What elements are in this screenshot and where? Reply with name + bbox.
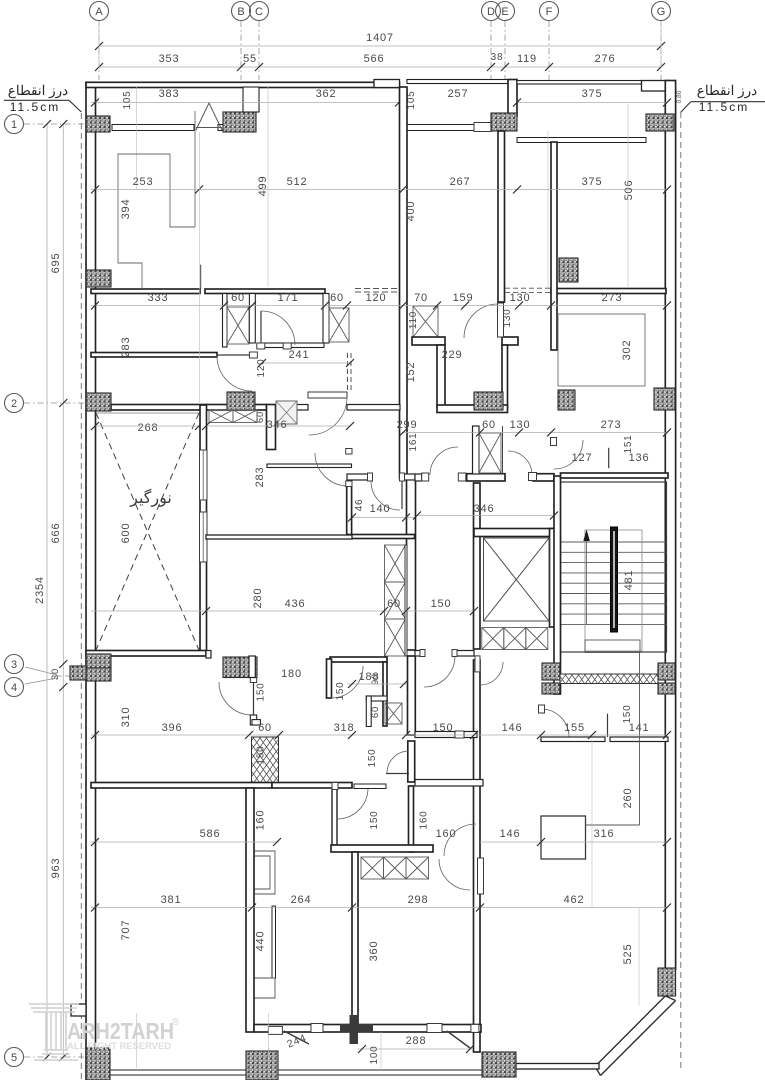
lightwell window b	[200, 512, 208, 562]
grid bubble D	[482, 2, 501, 21]
cabinet dashed b	[355, 291, 398, 293]
ext bottom c	[380, 1032, 382, 1071]
svg-text:362: 362	[316, 88, 337, 100]
door jamb	[268, 1026, 282, 1034]
closet hall 3	[385, 619, 406, 656]
door jamb	[551, 438, 557, 446]
ext 525	[638, 908, 640, 1005]
bath right wall	[383, 662, 387, 726]
closet row2 b	[233, 410, 257, 423]
svg-text:100: 100	[369, 1045, 380, 1064]
svg-text:481: 481	[623, 570, 635, 591]
stairs left wall	[554, 476, 561, 694]
counter low	[247, 978, 275, 998]
shaft wall right line	[502, 426, 504, 474]
wall 171-shaft	[323, 294, 329, 344]
svg-text:241: 241	[289, 349, 310, 361]
svg-text:566: 566	[364, 53, 385, 65]
grid bubble 5	[5, 1048, 24, 1067]
bottom window sill right	[278, 1070, 482, 1075]
svg-text:150: 150	[256, 682, 267, 701]
ext 506	[627, 104, 629, 288]
kitchen door arc	[371, 481, 400, 510]
door 360 arc	[439, 859, 470, 890]
svg-text:60: 60	[387, 598, 401, 610]
window sill 188	[354, 784, 386, 789]
dim line 1407	[99, 45, 661, 47]
wall 141	[610, 737, 668, 742]
grid line	[24, 123, 86, 125]
chamfer wall	[595, 996, 676, 1076]
door 155 arc	[541, 709, 569, 737]
svg-text:273: 273	[602, 292, 623, 304]
stair tread 5	[561, 582, 667, 584]
kitchen top wall a	[347, 474, 369, 480]
shaft 70	[413, 306, 438, 337]
room160 top wall b	[464, 732, 477, 738]
svg-text:D: D	[487, 6, 495, 18]
svg-text:346: 346	[267, 419, 288, 431]
column B/3 b	[240, 657, 257, 678]
kitchen bottom wall	[347, 535, 415, 539]
dashed wall	[347, 353, 349, 392]
dim col left	[62, 124, 64, 1057]
lightwell window a	[200, 450, 208, 500]
svg-text:130: 130	[510, 292, 531, 304]
column B/5	[246, 1051, 278, 1080]
counter 440	[247, 851, 275, 894]
leader bubble 3	[25, 667, 57, 675]
wall row2 c	[347, 405, 400, 411]
column G/4	[658, 683, 675, 694]
column A/4 out	[70, 666, 86, 680]
svg-text:159: 159	[453, 292, 474, 304]
pier G	[642, 81, 669, 92]
svg-text:436: 436	[285, 598, 306, 610]
dashed opening room130 b	[505, 291, 551, 293]
column A/5	[86, 1048, 110, 1080]
svg-text:60: 60	[231, 292, 245, 304]
counter 260	[585, 640, 640, 653]
svg-text:396: 396	[162, 722, 183, 734]
door leaf 310	[253, 682, 255, 715]
stub wall	[200, 265, 202, 289]
window band F-G	[517, 138, 646, 143]
door 130 arc	[261, 311, 295, 345]
wall 229 right	[502, 345, 508, 407]
wall 333 right	[205, 289, 325, 294]
wall 333 left	[91, 289, 200, 294]
grid line G	[660, 21, 662, 80]
svg-text:1: 1	[11, 119, 17, 131]
svg-text:333: 333	[148, 292, 169, 304]
stair tread 4	[561, 572, 667, 574]
svg-text:298: 298	[408, 894, 429, 906]
closet low 1	[361, 857, 384, 879]
stair tread 9	[561, 623, 667, 625]
closet hall 1	[385, 545, 406, 582]
svg-text:150: 150	[367, 748, 378, 767]
wall under 171	[257, 343, 324, 348]
column B/3 a	[223, 657, 240, 678]
svg-text:375: 375	[582, 88, 603, 100]
window 288	[427, 1024, 442, 1033]
door 150 leaf	[386, 773, 409, 775]
door leaf 130	[260, 311, 262, 345]
svg-text:60: 60	[255, 411, 266, 423]
grid bubble 3	[5, 655, 24, 674]
exterior wall right	[665, 81, 675, 970]
column A/1	[86, 116, 110, 132]
svg-text:267: 267	[450, 176, 471, 188]
dim row top	[99, 66, 661, 68]
svg-text:381: 381	[161, 894, 182, 906]
lightwell top line	[96, 412, 199, 414]
grid bubble A	[90, 2, 109, 21]
closet hall 2	[385, 582, 406, 619]
svg-text:146: 146	[502, 722, 523, 734]
column F/mid	[559, 258, 578, 282]
wall E down	[498, 131, 505, 302]
door jamb	[332, 783, 338, 790]
wall row2	[111, 405, 267, 411]
svg-text:273: 273	[601, 419, 622, 431]
bath left wall	[327, 659, 332, 698]
grid line	[24, 402, 86, 404]
wall vert 410 low	[408, 741, 415, 782]
dashed wall b	[350, 353, 352, 392]
door 159 leaf	[498, 303, 504, 337]
shaft wall left	[473, 426, 480, 474]
ext G	[660, 21, 662, 67]
svg-text:119: 119	[517, 53, 537, 65]
stair tread 7	[561, 603, 667, 605]
watermark logo column	[29, 1004, 79, 1060]
balcony door triangle	[196, 103, 222, 130]
dim line 383-362	[91, 102, 407, 104]
column F/4	[542, 683, 560, 694]
svg-text:150: 150	[369, 810, 380, 829]
svg-text:283: 283	[254, 467, 266, 488]
grid line E	[504, 21, 506, 80]
svg-text:360: 360	[368, 941, 380, 962]
svg-text:155: 155	[564, 722, 585, 734]
grid bubble 4	[5, 678, 24, 697]
column B/1	[223, 112, 256, 132]
svg-text:288: 288	[406, 1035, 427, 1047]
shower wall h	[366, 696, 387, 701]
svg-text:264: 264	[291, 894, 312, 906]
expansion joint right	[680, 112, 682, 1068]
shower wall v	[366, 696, 371, 727]
svg-text:152: 152	[405, 362, 417, 383]
door 180 arc	[331, 666, 363, 698]
svg-text:105: 105	[122, 90, 133, 109]
svg-text:666: 666	[50, 523, 62, 544]
wall L row2	[267, 405, 276, 450]
column A/3	[86, 654, 111, 668]
svg-text:440: 440	[255, 931, 267, 952]
elevator sill 1	[482, 628, 504, 650]
bottom window sill left	[110, 1070, 246, 1075]
shaft 60 left	[227, 307, 249, 344]
stair tread 2	[561, 551, 667, 553]
underline right	[691, 101, 765, 103]
svg-text:253: 253	[133, 176, 154, 188]
cabinet dashed	[355, 288, 398, 290]
dim row 607	[91, 610, 474, 612]
svg-text:®: ®	[172, 1017, 180, 1028]
svg-text:5: 5	[11, 1052, 17, 1064]
svg-text:120: 120	[256, 358, 267, 377]
room160 top wall a	[415, 732, 455, 738]
light well dashed X	[96, 413, 199, 650]
svg-text:257: 257	[448, 88, 469, 100]
svg-text:46: 46	[354, 499, 365, 512]
svg-text:260: 260	[622, 788, 634, 809]
column F/3	[542, 663, 560, 680]
door 244 leaf	[284, 1031, 309, 1044]
svg-text:963: 963	[50, 858, 62, 879]
jamb 360	[478, 858, 484, 894]
dim row 189	[91, 189, 667, 191]
dim col 2354	[46, 124, 48, 1057]
svg-text:383: 383	[159, 88, 180, 100]
svg-text:55: 55	[243, 53, 257, 65]
door jamb	[529, 473, 537, 481]
elevator cab	[484, 538, 550, 621]
svg-text:130: 130	[510, 419, 531, 431]
dim 586	[91, 841, 279, 843]
pier B-C	[243, 87, 259, 112]
column A/4	[86, 668, 111, 681]
dim row 907	[91, 907, 667, 909]
svg-text:462: 462	[564, 894, 585, 906]
door 310 arc	[219, 682, 252, 715]
svg-text:120: 120	[366, 292, 387, 304]
wall corner 310	[252, 720, 260, 725]
column chamfer	[658, 968, 676, 996]
closet low 3	[406, 857, 429, 879]
door jamb	[346, 449, 352, 455]
svg-text:160: 160	[255, 810, 267, 831]
wall corridor right lower	[474, 660, 481, 1052]
kitchen top wall b	[402, 474, 415, 480]
room 302 outline	[558, 314, 645, 386]
svg-text:707: 707	[120, 920, 132, 941]
hall wall b	[456, 651, 474, 657]
svg-text:127: 127	[572, 452, 593, 464]
wall shaft left	[223, 294, 228, 348]
svg-text:90: 90	[370, 673, 380, 685]
svg-text:160: 160	[436, 828, 457, 840]
exterior wall top A-C	[86, 82, 400, 87]
elevator right wall	[550, 529, 555, 628]
grid line C	[258, 21, 260, 80]
wall kitchen left	[347, 486, 352, 538]
svg-text:400: 400	[405, 201, 417, 222]
svg-text:525: 525	[622, 944, 634, 965]
closet low 2	[384, 857, 407, 879]
svg-text:4: 4	[11, 682, 17, 694]
wall F-G rooms	[551, 289, 666, 294]
dim 268	[95, 425, 199, 427]
column E/1	[491, 113, 517, 131]
window 244	[311, 1024, 323, 1033]
room160 door	[455, 731, 464, 738]
spine wall low	[408, 656, 416, 735]
column G/2	[654, 388, 675, 410]
grid line B	[240, 21, 242, 80]
leader bubbles 3-4	[57, 675, 86, 677]
corridor top wall mid	[467, 474, 505, 481]
svg-text:3: 3	[11, 659, 17, 671]
dim 188	[347, 683, 406, 685]
door jamb	[257, 343, 265, 349]
door jamb	[368, 473, 373, 481]
grid bubble 2	[5, 394, 24, 413]
grid bubble 1	[5, 115, 24, 134]
svg-text:60: 60	[482, 419, 496, 431]
wall corridor right upper	[474, 483, 481, 649]
vent shaft	[276, 401, 297, 424]
corner	[206, 651, 211, 659]
grid bubble B	[232, 2, 251, 21]
column A/2	[86, 393, 111, 411]
door 160 arc	[444, 824, 476, 856]
wall 229 top-right	[502, 337, 518, 345]
svg-text:F: F	[546, 6, 553, 18]
ext 499	[267, 87, 269, 287]
pier bottom mid	[340, 1024, 373, 1033]
svg-text:140: 140	[370, 503, 391, 515]
svg-text:280: 280	[252, 588, 264, 609]
svg-text:70: 70	[414, 292, 428, 304]
corridor door left	[430, 447, 458, 475]
wall row2 center	[437, 405, 508, 413]
wall 229 left	[437, 345, 445, 407]
door hall-146 arc	[480, 662, 503, 685]
corridor top wall right	[533, 474, 554, 481]
corridor wall seg	[415, 474, 422, 481]
wall under door	[250, 715, 256, 725]
wall kitchen left top	[347, 451, 352, 454]
pier C-D	[374, 80, 400, 88]
leader bubble 4	[25, 678, 57, 684]
elevator sill 3	[526, 628, 548, 650]
box 316	[541, 816, 586, 859]
door jamb	[249, 352, 257, 358]
jamb 146	[475, 656, 480, 672]
stair handrail	[611, 527, 618, 632]
door 436 arc	[315, 453, 348, 486]
door 346 arc	[309, 397, 347, 435]
wall vert 355	[352, 852, 358, 1025]
spine wall upper	[400, 87, 408, 478]
svg-text:30: 30	[50, 668, 61, 680]
svg-text:171: 171	[278, 292, 299, 304]
window band D-E	[407, 125, 474, 131]
dim row 428	[403, 432, 667, 434]
door jamb	[452, 650, 457, 657]
closet edge	[405, 545, 407, 656]
door jamb	[471, 1024, 479, 1032]
up arrow	[583, 530, 590, 542]
svg-text:60: 60	[370, 706, 381, 718]
door jamb	[346, 481, 352, 487]
ext A	[98, 21, 100, 67]
svg-text:110: 110	[408, 311, 419, 329]
svg-text:0.80: 0.80	[676, 90, 683, 103]
svg-text:A: A	[95, 6, 103, 18]
svg-text:150: 150	[622, 704, 633, 723]
elevator sill 2	[504, 628, 526, 650]
window band A-B	[112, 125, 194, 131]
wall above stairs	[561, 473, 669, 478]
stair hall outline	[561, 482, 667, 652]
column B-C/2	[227, 392, 255, 410]
svg-text:E: E	[501, 6, 508, 18]
door 127 arc	[554, 440, 583, 469]
door jamb	[283, 343, 291, 349]
expansion joint left	[80, 113, 82, 1080]
door jamb	[539, 705, 545, 713]
stair tread 3	[561, 562, 667, 564]
wall 229 top-left	[412, 337, 445, 345]
column F/2	[558, 390, 575, 410]
bottom wall right part	[516, 1064, 599, 1070]
door 288 leaf	[447, 1031, 470, 1048]
closet row2 a	[209, 410, 233, 423]
svg-text:229: 229	[442, 349, 463, 361]
svg-text:130: 130	[502, 308, 513, 327]
column A/mid	[86, 270, 111, 287]
shaft 60 right	[329, 308, 349, 342]
parapet D-E	[407, 80, 508, 84]
wall y848	[331, 845, 433, 852]
stair walk line	[586, 541, 588, 625]
stub 141	[607, 714, 609, 737]
svg-text:151: 151	[623, 434, 634, 453]
wall top room 283	[91, 353, 217, 358]
leader right	[681, 102, 691, 113]
svg-text:60: 60	[258, 722, 272, 734]
underline	[4, 99, 69, 101]
svg-text:318: 318	[334, 722, 355, 734]
svg-text:302: 302	[621, 340, 633, 361]
svg-text:B: B	[237, 6, 244, 18]
bath188 left wall	[332, 788, 337, 845]
svg-text:38: 38	[491, 52, 504, 63]
svg-text:1407: 1407	[366, 32, 394, 44]
WC shaft	[385, 703, 402, 724]
svg-text:353: 353	[159, 53, 180, 65]
wall row2 b	[276, 405, 308, 411]
svg-text:310: 310	[120, 707, 132, 728]
svg-text:283: 283	[120, 337, 132, 358]
column D/2	[474, 392, 503, 410]
wall 310 top	[249, 656, 255, 678]
svg-text:146: 146	[500, 828, 521, 840]
ext line 136	[136, 87, 138, 190]
kitchen door leaf	[401, 481, 403, 509]
wall y465	[267, 464, 352, 468]
grid bubble F	[540, 2, 559, 21]
svg-text:11.5cm: 11.5cm	[699, 100, 749, 114]
door 346 leaf	[308, 392, 347, 398]
svg-text:375: 375	[582, 176, 603, 188]
spine wall mid	[407, 478, 416, 650]
